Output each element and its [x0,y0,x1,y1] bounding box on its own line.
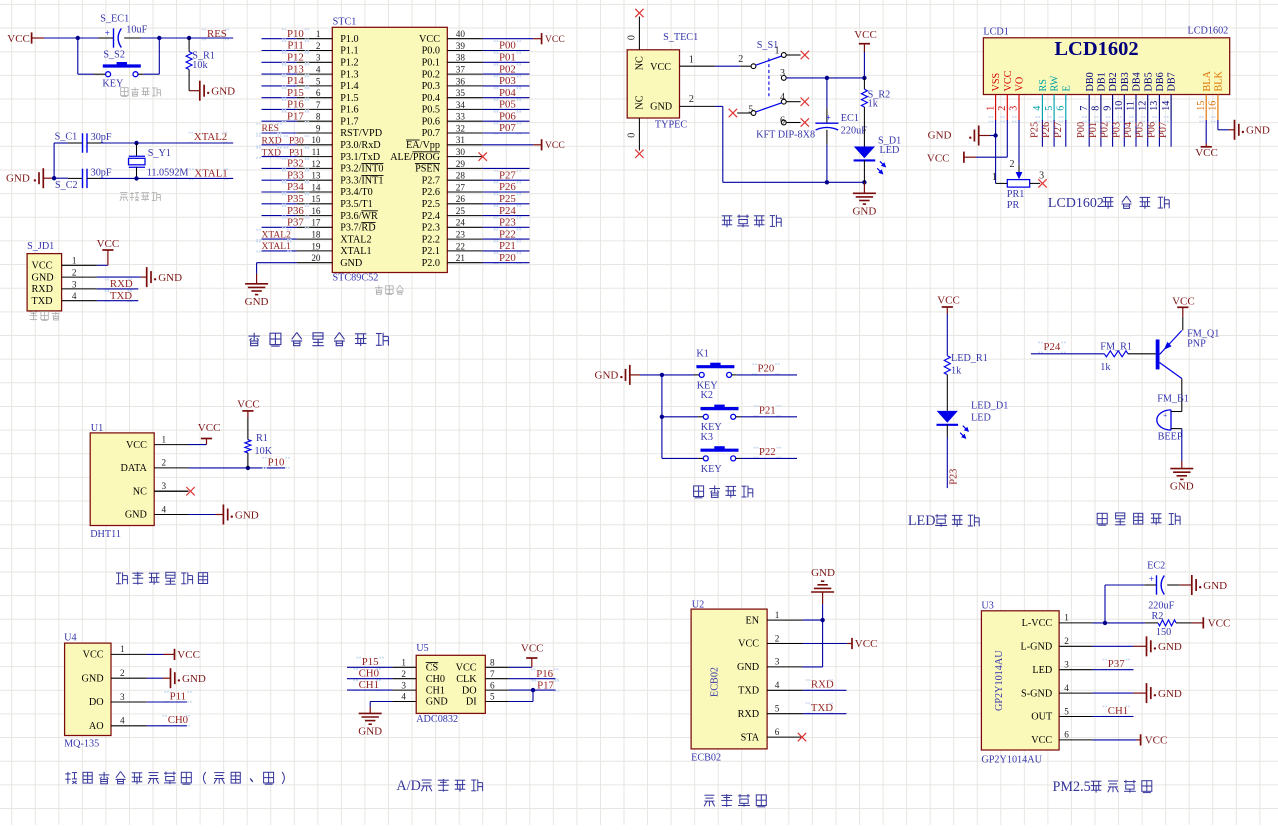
capacitor EC1 220uF [815,78,867,182]
annotation download port [29,311,37,320]
wire DO [146,701,186,703]
no-connect sw5 [729,109,737,117]
svg-text:U5: U5 [416,643,428,654]
svg-text:P16: P16 [287,99,304,111]
pin 31 EA/Vpp [406,135,483,151]
pin 17 P3.7/RD [297,218,376,234]
svg-text:3: 3 [1039,170,1044,181]
svg-text:VCC: VCC [937,295,960,307]
pin 35 P0.4 [422,88,483,104]
junction [134,141,138,145]
no-connect NC pin3 [154,490,188,492]
svg-text:P27: P27 [1053,122,1064,138]
overline RD [361,222,375,224]
wire pin 33 [483,120,530,122]
junction [246,466,250,470]
svg-text:S_C1: S_C1 [55,131,78,142]
svg-text:DO: DO [462,685,477,696]
overline PSEN [415,163,440,165]
svg-text:2: 2 [738,54,743,65]
svg-text:P0.1: P0.1 [422,58,440,69]
svg-text:P00: P00 [1076,122,1087,138]
svg-text:RW: RW [1050,75,1061,91]
svg-text:2: 2 [1064,636,1069,646]
svg-text:P21: P21 [499,240,516,252]
svg-text:1: 1 [401,658,406,668]
wire C2 gnd side [54,177,68,179]
junction [825,76,829,80]
svg-text:1: 1 [775,45,780,56]
svg-text:5: 5 [748,104,753,115]
wire pin 34 [483,108,530,110]
svg-text:EA/Vpp: EA/Vpp [406,140,440,151]
svg-text:6: 6 [780,115,785,126]
svg-text:RS: RS [1038,79,1049,92]
svg-text:CLK: CLK [456,674,477,685]
svg-text:P25: P25 [1029,122,1040,138]
svg-text:P3.4/T0: P3.4/T0 [340,187,373,198]
svg-text:AO: AO [89,721,104,732]
svg-text:4: 4 [316,65,321,75]
svg-text:KFT DIP-8X8: KFT DIP-8X8 [756,129,815,140]
svg-text:P26: P26 [1041,122,1052,138]
power port VCC (R2) [1192,617,1231,629]
title bluetooth module [704,795,715,806]
wire pin 29 PSEN [483,167,530,169]
pushbutton K1 KEY [694,348,737,391]
svg-text:LED: LED [1032,665,1052,676]
svg-text:GND: GND [1203,580,1227,592]
svg-text:S_Y1: S_Y1 [148,148,171,159]
svg-text:P16: P16 [536,668,553,680]
svg-text:LCD1: LCD1 [983,26,1008,37]
svg-text:P1.2: P1.2 [340,58,358,69]
power port VCC (bluetooth) [803,638,878,650]
svg-text:P07: P07 [1158,122,1169,138]
overline PROG [413,151,441,153]
junction [76,36,80,40]
svg-text:VCC: VCC [1145,734,1168,746]
svg-text:VCC: VCC [521,643,544,655]
no-connect pin 30 [479,152,487,160]
svg-text:VCC: VCC [854,29,877,41]
power port VCC (DHT11) [189,422,221,445]
wire pin2 to GND [97,276,141,278]
svg-text:33: 33 [456,112,466,122]
svg-text:P17: P17 [287,110,304,122]
svg-text:P07: P07 [499,122,516,134]
title buzzer circuit [1097,513,1107,525]
svg-text:S_EC1: S_EC1 [100,13,129,24]
capacitor S_EC1 10uF [98,13,148,47]
wire pin 10 [262,144,297,146]
junction [825,180,829,184]
wire TXD pin [803,689,847,691]
buzzer FM_B1 BEEP [1157,394,1189,443]
svg-text:P3.7/RD: P3.7/RD [340,223,375,234]
wire pin 9 [262,132,297,134]
pin 34 P0.5 [422,100,483,116]
pin 15 BLA [1196,70,1213,122]
svg-text:P25: P25 [499,193,516,205]
junction [157,36,161,40]
svg-text:P14: P14 [287,75,304,87]
svg-text:12: 12 [1137,101,1148,111]
svg-text:U1: U1 [91,423,103,434]
svg-text:DATA: DATA [121,463,148,474]
svg-text:P03: P03 [499,75,516,87]
svg-text:P37: P37 [287,217,304,229]
svg-text:14: 14 [1161,101,1172,111]
wire DO [509,689,556,691]
svg-text:LED: LED [880,145,900,156]
svg-text:P0.5: P0.5 [422,105,440,116]
wire pin 5 [262,85,297,87]
svg-text:NC: NC [133,486,147,497]
svg-text:220uF: 220uF [841,126,867,137]
svg-text:U3: U3 [981,600,993,611]
svg-text:20: 20 [311,253,321,263]
ground GND (bluetooth) [811,567,835,620]
pin 9 RST/VPD [297,123,382,139]
wire C2 to node [101,177,137,179]
resistor FM_R1 1k [1100,341,1156,373]
svg-text:P10: P10 [287,28,304,40]
svg-text:DI: DI [466,697,477,708]
wire XTAL1 stub [137,177,234,179]
svg-text:TXD: TXD [32,296,53,307]
switch S_S2 KEY [94,50,143,90]
svg-text:27: 27 [456,182,466,192]
svg-text:P00: P00 [499,40,516,52]
wire pin 24 [483,226,530,228]
svg-text:13: 13 [311,171,321,181]
pin 5 RW [1044,75,1061,122]
svg-text:MQ-135: MQ-135 [64,738,99,749]
wire pin 28 [483,179,530,181]
svg-text:DB4: DB4 [1132,72,1143,91]
svg-text:P2.4: P2.4 [422,211,440,222]
wire pin15 BLA down [1205,120,1207,144]
LED LED_D1 [937,400,1009,439]
svg-text:CH0: CH0 [426,674,445,685]
LED S_D1 [854,136,902,183]
pin 11 DB4 [1126,72,1143,122]
svg-text:ADC0832: ADC0832 [416,714,458,725]
resistor R2 150 [1145,611,1191,638]
svg-text:1k: 1k [951,365,962,376]
svg-text:VCC: VCC [456,663,477,674]
svg-text:P03: P03 [1111,122,1122,138]
wire GND pin 20 [257,262,297,264]
svg-text:P04: P04 [499,87,516,99]
svg-text:P2.1: P2.1 [422,246,440,257]
pin 28 P2.7 [422,171,483,187]
pin 3 P1.2 [297,53,359,69]
svg-text:VCC: VCC [7,33,30,45]
wire pin 11 [262,156,297,158]
pin 8 P1.7 [297,112,359,128]
svg-text:4: 4 [775,680,780,690]
pin 13 P3.3/INT1 [297,171,384,187]
wire pin 26 [483,203,530,205]
svg-text:VCC: VCC [1031,735,1052,746]
ground GND (crystal) [6,168,54,188]
svg-text:GND: GND [358,725,382,737]
svg-text:P22: P22 [499,228,516,240]
pin 14 DB7 [1161,72,1178,122]
power port VCC (pin 40) [483,33,565,45]
svg-text:VCC: VCC [83,650,104,661]
svg-text:38: 38 [456,53,466,63]
svg-text:VCC: VCC [126,440,147,451]
wire pin1 to switch [715,65,740,67]
wire pin3 [97,288,138,290]
svg-text:GND: GND [852,205,876,217]
svg-text:3: 3 [401,680,406,690]
svg-text:39: 39 [456,41,466,51]
pin 6 E [1056,85,1073,122]
ground GND (ADC0832) [358,707,382,737]
wire pin 32 [483,132,530,134]
svg-text:DB0: DB0 [1085,72,1096,91]
pin 40 VCC [419,29,483,45]
svg-text:DB7: DB7 [1167,72,1178,91]
wire pin16 BLK down [1217,120,1219,130]
ground GND (buzzer) [1170,461,1194,493]
svg-text:E: E [1061,85,1072,91]
power port VCC (LED circuit) [937,295,960,314]
svg-text:220uF: 220uF [1148,601,1174,612]
svg-text:35: 35 [456,88,466,98]
svg-text:LED: LED [908,513,936,529]
wire pin 5 [1053,120,1055,147]
svg-text:6: 6 [775,727,780,737]
svg-text:P13: P13 [287,63,304,75]
svg-text:13: 13 [1149,101,1160,111]
svg-text:P0.3: P0.3 [422,81,440,92]
ground GND (EC2) [1180,575,1227,595]
svg-text:34: 34 [456,100,466,110]
svg-text:1: 1 [985,106,996,111]
power port VCC (backlight) [1195,144,1218,160]
svg-text:P0.6: P0.6 [422,116,440,127]
svg-text:P3.5/T1: P3.5/T1 [340,199,373,210]
svg-text:3: 3 [120,692,125,702]
wire pin 10 [1123,120,1125,147]
wire pin 6 [262,97,297,99]
svg-text:7: 7 [490,669,495,679]
svg-text:5: 5 [775,704,780,714]
svg-text:1: 1 [992,172,997,183]
svg-text:10K: 10K [255,446,273,457]
svg-text:ALE/PROG: ALE/PROG [390,152,440,163]
svg-text:2: 2 [997,106,1008,111]
ground GND (L-GND) [1133,636,1181,656]
wire XTAL2 stub [137,142,234,144]
svg-text:15: 15 [1196,101,1207,111]
svg-text:4: 4 [162,504,167,514]
crystal S_Y1 11.0592M [129,143,189,178]
LCD module LCD1 LCD1602 [983,25,1229,94]
pin 11 P3.1/TxD [297,147,380,163]
svg-text:VCC: VCC [927,153,950,165]
wire pin 36 [483,85,530,87]
svg-text:R1: R1 [256,433,268,444]
svg-text:P3.6/WR: P3.6/WR [340,211,378,222]
svg-text:GND: GND [182,673,206,685]
svg-text:37: 37 [456,65,466,75]
junction [862,76,866,80]
wire pin 19 [262,250,297,252]
wire pin 21 [483,262,530,264]
wire pin 22 [483,250,530,252]
svg-text:P2.0: P2.0 [422,258,440,269]
svg-text:16: 16 [1208,101,1219,111]
no-connect bottom [635,150,643,158]
svg-text:P26: P26 [499,181,516,193]
svg-text:P0.7: P0.7 [422,128,440,139]
svg-text:P1.1: P1.1 [340,46,358,57]
svg-text:5: 5 [1064,706,1069,716]
svg-text:P3.0/RxD: P3.0/RxD [340,140,380,151]
pin 4 RS [1032,79,1049,123]
pin 6 P1.5 [297,88,359,104]
svg-text:FM_R1: FM_R1 [1100,341,1132,352]
svg-text:P1.0: P1.0 [340,34,358,45]
svg-text:+: + [105,28,110,38]
svg-text:PM2.5: PM2.5 [1053,779,1091,795]
svg-text:FM_B1: FM_B1 [1157,394,1189,405]
pin 16 P3.6/WR [297,206,378,222]
junction [820,618,824,622]
pin 12 DB5 [1137,72,1154,122]
svg-text:KEY: KEY [701,464,723,475]
svg-text:5: 5 [316,76,321,86]
svg-text:P22: P22 [759,446,776,458]
svg-text:21: 21 [456,253,466,263]
junction [660,373,664,377]
pin 33 P0.6 [422,112,483,128]
svg-text:1: 1 [316,29,321,39]
ground GND (S_JD1) [141,267,182,287]
pushbutton K3 KEY [698,432,741,475]
svg-text:P20: P20 [499,252,516,264]
svg-text:+: + [1149,574,1154,584]
svg-text:+: + [826,113,831,123]
svg-text:DO: DO [89,697,104,708]
wire pin 13 [1158,120,1160,147]
wire pin 15 [262,203,297,205]
svg-text:P33: P33 [287,169,304,181]
svg-text:NC: NC [635,95,646,109]
pin 2 P1.1 [297,41,359,57]
svg-text:S_TEC1: S_TEC1 [663,32,698,43]
wire to K2 [662,416,698,418]
svg-text:GND: GND [82,673,104,684]
wire pin 4 [262,73,297,75]
annotation crystal [120,193,128,201]
svg-text:P23: P23 [499,217,516,229]
svg-text:VCC: VCC [1195,147,1218,159]
svg-text:VCC: VCC [545,34,565,45]
svg-text:10: 10 [1114,101,1125,111]
wire VCC to resistor [946,314,948,356]
overline INT0 [361,163,383,165]
svg-text:GND: GND [32,272,54,283]
wire node to C plate [78,37,98,39]
pin 26 P2.5 [422,194,483,210]
svg-text:DB6: DB6 [1155,72,1166,91]
power port VCC (buzzer) [1172,296,1195,317]
wire gnd column to pin3 [822,620,824,667]
svg-text:GND: GND [211,86,235,98]
svg-text:GP2Y1014AU: GP2Y1014AU [994,650,1005,711]
wire pin 17 [262,226,297,228]
junction [660,415,664,419]
svg-text:18: 18 [311,230,321,240]
svg-text:P2.2: P2.2 [422,234,440,245]
pin 15 P3.5/T1 [297,194,373,210]
svg-text:VCC: VCC [97,238,120,250]
title power circuit [722,216,733,227]
svg-text:VCC: VCC [1208,618,1231,630]
svg-text:30pF: 30pF [91,132,112,143]
wire RXD pin [803,713,847,715]
svg-text:BLA: BLA [1202,70,1213,91]
svg-text:GND: GND [158,272,182,284]
svg-text:CH1: CH1 [359,679,379,691]
pin 8 DB1 [1091,72,1108,122]
svg-text:P2.5: P2.5 [422,199,440,210]
svg-text:ECB02: ECB02 [691,752,721,763]
svg-text:10: 10 [311,135,321,145]
svg-text:RES: RES [262,124,279,134]
pin 5 P1.4 [297,76,359,92]
pin 1 VSS [985,72,1002,122]
wire pin1 node [1093,622,1146,624]
power port VCC (R1) [237,399,260,418]
svg-text:4: 4 [120,716,125,726]
resistor LED_R1 1k [944,353,987,411]
svg-text:CH1: CH1 [426,685,445,696]
svg-text:CH1: CH1 [1108,705,1128,717]
svg-text:10uF: 10uF [126,24,147,35]
svg-text:XTAL2: XTAL2 [194,131,227,143]
overline INT1 [361,174,383,176]
resistor R1 10K [245,418,273,468]
svg-text:VCC: VCC [32,261,53,272]
wire pin 3 [262,61,297,63]
svg-text:L-GND: L-GND [1021,642,1053,653]
svg-text:PSEN: PSEN [415,164,441,175]
svg-text:P3.1/TxD: P3.1/TxD [340,152,380,163]
svg-text:DB1: DB1 [1097,72,1108,91]
svg-text:0: 0 [627,133,638,138]
svg-text:8: 8 [490,658,495,668]
wire LED down [946,425,948,438]
svg-text:6: 6 [1064,730,1069,740]
wire pin 25 [483,215,530,217]
no-connect sw6 [801,118,809,126]
sensor U4 MQ-135 [64,632,146,749]
svg-text:P36: P36 [287,205,304,217]
wire pin 27 [483,191,530,193]
bluetooth module U2 ECB02 [691,599,802,763]
svg-text:+: + [1163,411,1167,420]
svg-text:2: 2 [1010,159,1015,170]
pin 29 PSEN [415,159,483,175]
